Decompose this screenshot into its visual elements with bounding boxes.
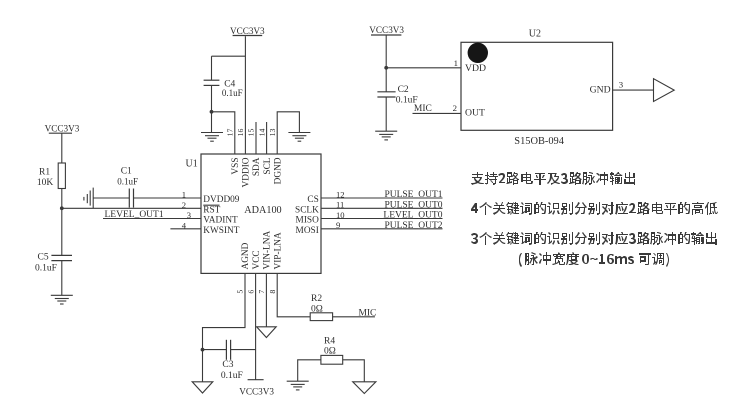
svg-text:14: 14	[257, 129, 266, 137]
svg-text:15: 15	[247, 129, 256, 137]
svg-text:0.1uF: 0.1uF	[222, 88, 243, 98]
svg-text:1: 1	[454, 58, 458, 68]
wire VCC to node	[385, 35, 387, 68]
wire MOSI net PULSE_OUT2	[321, 228, 443, 230]
svg-text:4: 4	[182, 220, 187, 230]
wire OUT net MIC	[413, 112, 462, 114]
wire RST trunk	[62, 207, 201, 209]
wire VCC pin 6	[255, 273, 257, 379]
svg-text:C1: C1	[121, 167, 132, 177]
capacitor C3 0.1uF	[221, 340, 243, 381]
wire SCL stub	[266, 122, 268, 154]
svg-text:C5: C5	[38, 252, 49, 262]
svg-text:VCC3V3: VCC3V3	[230, 26, 265, 36]
svg-text:CS: CS	[307, 195, 318, 205]
svg-text:LEVEL_OUT0: LEVEL_OUT0	[383, 211, 442, 221]
svg-text:0Ω: 0Ω	[324, 347, 336, 357]
wire R2 to MIC	[333, 316, 375, 318]
wire C1 to DVDD09 pin 1	[134, 197, 202, 199]
wire VIN-LNA pin 7	[265, 273, 267, 326]
wire SDA stub	[255, 122, 257, 154]
wire DGND pin 13 to ground	[277, 112, 299, 154]
wire VDDIO rail	[244, 36, 246, 154]
svg-text:VIN-LNA: VIN-LNA	[263, 230, 273, 269]
node VDD junction	[384, 66, 388, 70]
wire down to C4	[211, 56, 213, 80]
svg-text:C3: C3	[222, 360, 233, 370]
wire VIP-LNA pin 8 to R2	[277, 273, 310, 316]
wire KWSINT	[170, 228, 201, 230]
wire AGND pin 5 run	[203, 273, 246, 381]
svg-text:RST: RST	[203, 205, 220, 215]
IC U1 ADA100	[186, 154, 322, 273]
node R1/C5/RST junction	[60, 206, 64, 210]
wire R4 right to ground	[343, 360, 365, 382]
wire node to ground	[211, 112, 213, 133]
svg-text:ADA100: ADA100	[244, 205, 281, 216]
signal ground rotated at C1 input	[84, 188, 93, 209]
capacitor C5 0.1uF	[35, 252, 72, 273]
wire R4 left to ground	[298, 360, 321, 381]
svg-text:PULSE_OUT2: PULSE_OUT2	[384, 221, 442, 231]
svg-text:DGND: DGND	[273, 157, 283, 184]
svg-text:0Ω: 0Ω	[311, 304, 323, 314]
annotation text Chinese	[471, 172, 718, 267]
svg-text:VCC: VCC	[252, 250, 262, 269]
node AGND/C3 junction	[201, 348, 205, 352]
svg-text:3: 3	[619, 79, 624, 89]
svg-text:SDA: SDA	[252, 157, 262, 176]
wire R1 to node	[61, 189, 63, 209]
wire VADINT net LEVEL_OUT1	[103, 218, 201, 220]
power flag VCC3V3 left	[45, 124, 80, 134]
svg-text:PULSE_OUT0: PULSE_OUT0	[384, 200, 442, 210]
capacitor C2 0.1uF	[377, 85, 417, 105]
svg-text:3: 3	[187, 210, 191, 220]
pin name RST with overbar	[203, 205, 220, 215]
svg-text:MISO: MISO	[296, 216, 320, 226]
wire node to C2	[385, 68, 387, 92]
svg-text:1: 1	[182, 190, 186, 200]
svg-text:OUT: OUT	[465, 108, 485, 119]
svg-text:KWSINT: KWSINT	[203, 226, 239, 236]
svg-text:8: 8	[268, 290, 277, 294]
svg-text:PULSE_OUT1: PULSE_OUT1	[384, 190, 442, 200]
wire VDD pin 1	[386, 67, 461, 69]
wire SCLK net PULSE_OUT0	[321, 207, 443, 209]
wire CS net PULSE_OUT1	[321, 197, 443, 199]
svg-text:R2: R2	[311, 294, 322, 304]
wire VCC to R1	[61, 133, 63, 163]
svg-text:VDD: VDD	[465, 63, 486, 74]
svg-text:17: 17	[226, 129, 235, 137]
svg-text:VCC3V3: VCC3V3	[45, 124, 80, 134]
wire VSS pin 17	[212, 112, 235, 154]
svg-text:SCLK: SCLK	[295, 205, 319, 215]
svg-text:MIC: MIC	[358, 308, 376, 318]
wire branch to C4	[212, 55, 246, 57]
resistor R4 0ohm	[321, 336, 343, 364]
wire GND pin 3	[613, 89, 654, 91]
wire C3 right	[231, 349, 256, 351]
ground triangle right of R4	[353, 382, 376, 394]
power flag VCC3V3 right	[369, 25, 404, 35]
ground earth at DGND	[288, 133, 310, 142]
svg-text:0.1uF: 0.1uF	[35, 263, 57, 273]
svg-text:9: 9	[336, 220, 340, 230]
svg-text:11: 11	[336, 200, 344, 210]
power flag VCC3V3 top middle	[230, 26, 265, 36]
wire node to C5	[61, 208, 63, 255]
wire C4 to node	[211, 85, 213, 111]
svg-text:7: 7	[257, 290, 266, 294]
svg-text:VCC3V3: VCC3V3	[369, 25, 404, 35]
svg-text:13: 13	[268, 129, 277, 137]
svg-text:12: 12	[336, 189, 345, 199]
svg-text:MIC: MIC	[414, 104, 432, 114]
resistor R2 0ohm	[310, 294, 332, 320]
svg-text:R1: R1	[39, 167, 50, 177]
off-page connector triangle	[654, 79, 675, 102]
svg-text:VSS: VSS	[231, 158, 241, 175]
svg-text:10: 10	[336, 210, 345, 220]
ground earth at R4	[287, 381, 309, 390]
svg-text:0.1uF: 0.1uF	[117, 176, 138, 186]
ground triangle AGND	[192, 382, 213, 393]
svg-text:2: 2	[182, 200, 186, 210]
IC U2 S15OB-094	[461, 28, 613, 146]
microphone dot on U2	[468, 43, 488, 63]
svg-text:GND: GND	[590, 84, 611, 95]
svg-text:VIP-LNA: VIP-LNA	[273, 232, 283, 269]
wire MISO net LEVEL_OUT0	[321, 218, 443, 220]
ground earth below C4	[201, 133, 223, 142]
svg-text:MOSI: MOSI	[296, 226, 319, 236]
svg-text:AGND: AGND	[241, 242, 251, 269]
svg-text:0.1uF: 0.1uF	[221, 371, 243, 381]
svg-text:SCL: SCL	[263, 157, 273, 174]
ground earth below C5	[51, 295, 73, 304]
power flag VCC3V3 bottom	[239, 380, 274, 397]
node C4/VSS junction	[210, 110, 214, 114]
svg-text:10K: 10K	[37, 178, 54, 188]
svg-text:6: 6	[246, 290, 255, 294]
svg-text:R4: R4	[324, 336, 335, 346]
capacitor C4 0.1uF	[204, 80, 243, 98]
resistor R1 10K	[37, 163, 66, 189]
svg-text:2: 2	[453, 103, 457, 113]
wire to C1	[93, 197, 129, 199]
wire C5 to ground	[61, 261, 63, 296]
svg-text:S15OB-094: S15OB-094	[514, 136, 564, 147]
wire C3 left	[203, 349, 227, 351]
svg-text:VADINT: VADINT	[203, 216, 238, 226]
svg-text:VDDIO: VDDIO	[242, 157, 252, 187]
wire C2 to ground	[385, 97, 387, 131]
capacitor C1 0.1uF	[117, 167, 138, 208]
svg-text:5: 5	[236, 290, 245, 294]
ground triangle VIN-LNA	[257, 327, 277, 338]
svg-text:LEVEL_OUT1: LEVEL_OUT1	[105, 210, 164, 220]
svg-text:16: 16	[236, 129, 245, 137]
svg-text:C2: C2	[398, 85, 409, 95]
svg-text:U1: U1	[186, 159, 198, 170]
svg-text:DVDD09: DVDD09	[203, 195, 240, 205]
svg-text:U2: U2	[529, 28, 541, 39]
svg-text:VCC3V3: VCC3V3	[239, 387, 274, 397]
ground earth below C2	[375, 131, 397, 140]
